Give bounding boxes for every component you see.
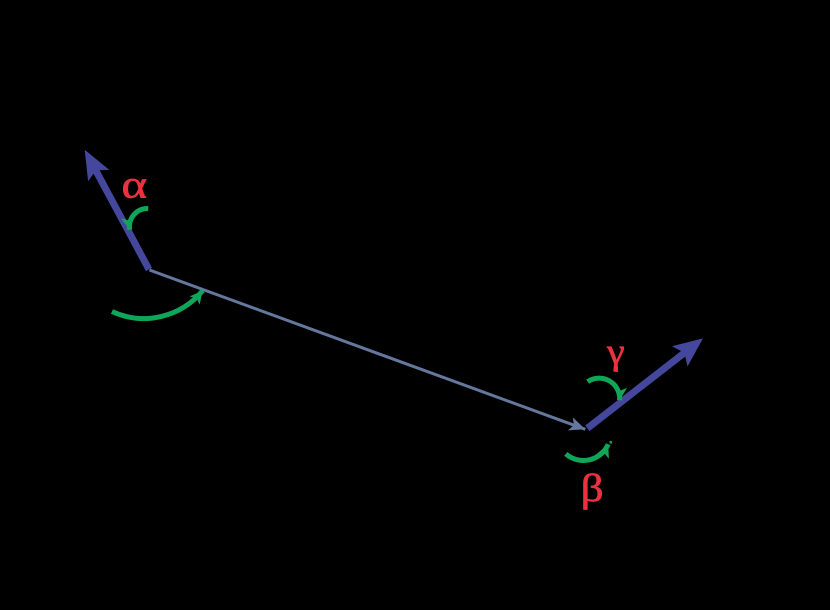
svg-text:β: β: [581, 467, 604, 510]
vector V2 (thick indigo arrow, up-right): [587, 338, 703, 428]
segment S (thin steel line from vertex A to vertex B with arrowhead): [150, 270, 586, 429]
svg-text:γ: γ: [606, 332, 625, 372]
angle arc alpha (green curved arrow at vector V1): [129, 208, 148, 229]
angle arc beta (green curved arrow below vertex B): [566, 441, 612, 460]
svg-text:α: α: [122, 163, 148, 206]
angle arc at vertex A (large green curved arrow): [112, 291, 203, 319]
vector V1 (thick indigo arrow, up-left): [85, 150, 149, 270]
angle arc gamma (green curved arrow at vector V2): [588, 378, 620, 400]
